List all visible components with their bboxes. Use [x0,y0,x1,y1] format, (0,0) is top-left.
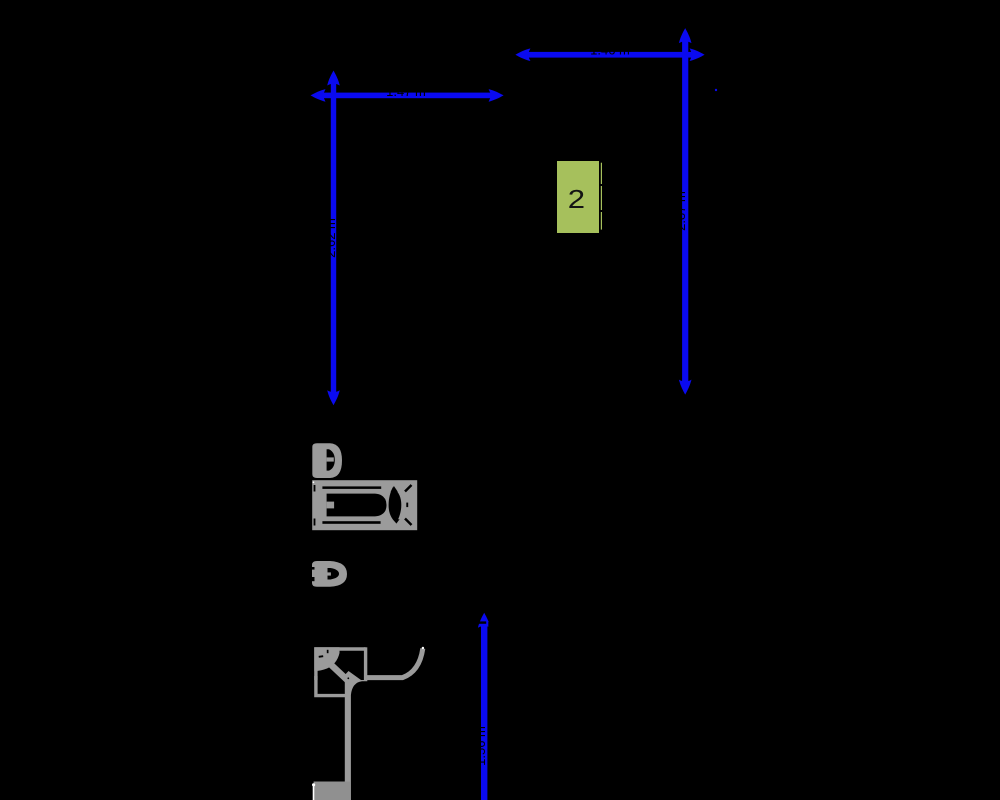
svg-text:1.46 m: 1.46 m [590,42,630,57]
svg-text:2: 2 [568,185,585,214]
svg-text:2.62 m: 2.62 m [323,218,338,258]
svg-text:1.56 m: 1.56 m [473,726,488,766]
svg-text:2.87 m: 2.87 m [673,191,688,231]
svg-text:1.47 m: 1.47 m [386,84,426,99]
